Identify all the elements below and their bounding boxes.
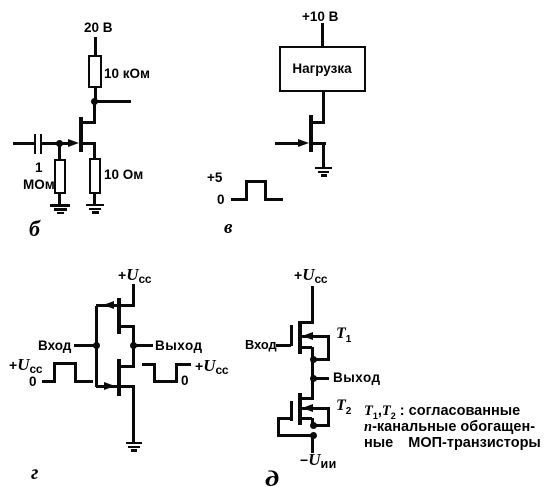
label Выход (д) [333, 370, 381, 385]
pulse level label 0 [217, 192, 225, 207]
label Выход [155, 338, 203, 353]
node input [93, 342, 100, 349]
part label в [224, 217, 233, 239]
label Нагрузка [279, 61, 366, 76]
gate arrow of Q2 [298, 139, 309, 147]
substrate arrow of T2 [0, 0, 1, 1]
gate feedback loop of T2 [0, 0, 1, 1]
wire supply to load [321, 23, 324, 46]
wire supply to R1 [94, 37, 97, 56]
wire to negative supply [311, 436, 314, 453]
transistor T-p (p-channel, top) [0, 0, 1, 1]
label Вход (д) [245, 337, 277, 352]
substrate arrow of T1 [0, 0, 1, 1]
left waveform label 0 [29, 374, 37, 389]
wire gate node to R2 [58, 145, 61, 159]
wire T1 source down [311, 347, 314, 360]
wire supply to T1 drain [311, 286, 314, 324]
gate arrow of T-n (points right) [104, 382, 115, 390]
transistor Q1 (n-JFET) [0, 0, 1, 1]
capacitor C1 [0, 0, 1, 1]
wire capacitor to gate [42, 142, 68, 145]
wire R3 to ground [93, 193, 96, 204]
supply label +Ucc [294, 265, 327, 286]
wire input lead [13, 142, 34, 145]
right waveform (inverted pulse) [0, 0, 1, 1]
wire R2 to ground [58, 193, 61, 205]
wire output [95, 100, 131, 103]
node T2 source [310, 422, 317, 429]
wire T-p drain to output node [132, 327, 135, 347]
resistor R1 10 кОм [88, 55, 102, 88]
wire load to drain [322, 92, 325, 123]
node T1 source [310, 356, 317, 363]
value label 10 Ом [104, 167, 143, 182]
right waveform label +Ucc [195, 356, 228, 377]
note text T1,T2 matched n-channel enhancement MOS transistors [0, 0, 1, 1]
node output [130, 342, 137, 349]
wire to output node [311, 360, 314, 378]
input pulse waveform [0, 0, 1, 1]
transistor T2 [0, 0, 1, 1]
wire Вход to node [74, 344, 96, 347]
input pulse waveform (г) [0, 0, 1, 1]
wire output node to T2 drain [311, 379, 314, 398]
resistor R2 1 МОм [54, 159, 66, 194]
wire input rail [95, 306, 98, 387]
pulse level label +5 [207, 170, 222, 185]
left waveform label +Ucc [9, 355, 42, 376]
ground (R3) [0, 0, 1, 1]
gate arrow of T-p (points left) [103, 301, 114, 309]
value label 10 кОм [104, 66, 150, 81]
wire gate lead [275, 142, 299, 145]
wire output node to T-n drain [132, 347, 135, 367]
wire R1 to drain node [94, 88, 97, 101]
node output (д) [310, 375, 317, 382]
label Вход [38, 338, 71, 353]
node gate tie [310, 432, 317, 439]
supply label -Uии [300, 450, 337, 471]
transistor T1 [0, 0, 1, 1]
load box Нагрузка [279, 46, 366, 92]
wire supply down [132, 284, 135, 307]
node gate [56, 140, 63, 147]
resistor R3 10 Ом [89, 158, 101, 194]
wire T2 source down [311, 418, 314, 426]
node drain (output) [91, 98, 98, 105]
ground (R2) [0, 0, 1, 1]
part label д [265, 466, 279, 487]
right waveform label 0 [181, 373, 189, 388]
wire T-n source to ground [132, 387, 135, 442]
transistor Q2 (n-MOSFET) [0, 0, 1, 1]
supply label 20 В [84, 20, 113, 35]
ground (inverter) [0, 0, 1, 1]
wire output [135, 344, 153, 347]
label T1 [336, 325, 351, 345]
label T2 [336, 397, 351, 417]
wire source to ground [322, 143, 325, 167]
gate arrow of Q1 [68, 139, 79, 147]
wire source to R3 [93, 143, 96, 158]
supply label +Ucc [118, 265, 151, 286]
supply label +10 В [302, 9, 338, 24]
wire output stub [313, 377, 329, 380]
ground (Q2 source) [0, 0, 1, 1]
value label 1 МОм [0, 0, 1, 1]
wire node to drain lead [93, 102, 96, 123]
part label г [31, 462, 38, 485]
transistor T-n (n-channel, bottom) [0, 0, 1, 1]
part label б [29, 216, 40, 242]
